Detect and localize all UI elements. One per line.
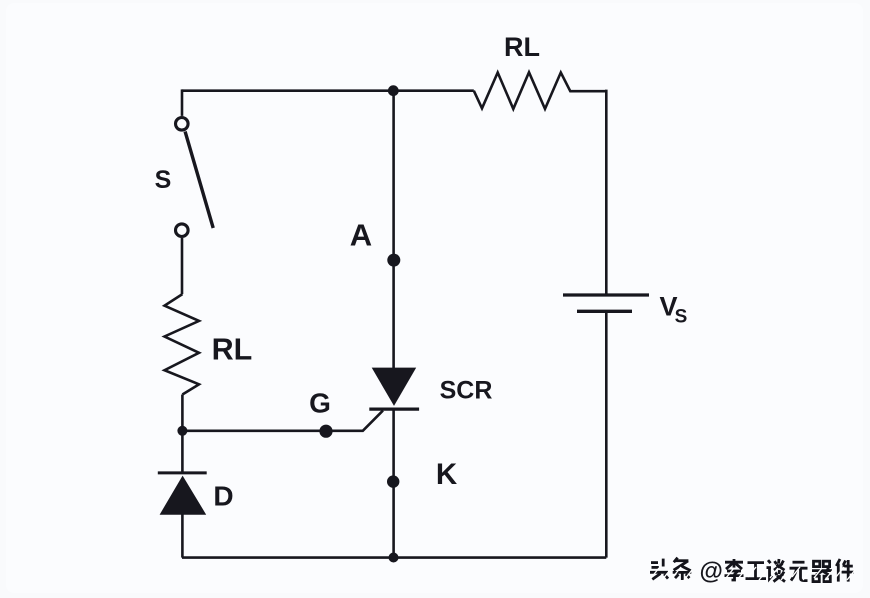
svg-text:A: A	[350, 218, 372, 253]
svg-text:G: G	[309, 388, 331, 419]
svg-text:K: K	[436, 458, 458, 491]
svg-text:D: D	[213, 481, 233, 512]
svg-text:RL: RL	[504, 32, 540, 62]
svg-text:S: S	[155, 166, 172, 194]
svg-text:SCR: SCR	[440, 377, 493, 405]
svg-text:@: @	[700, 558, 723, 585]
svg-text:RL: RL	[212, 332, 253, 366]
svg-text:S: S	[675, 307, 688, 328]
